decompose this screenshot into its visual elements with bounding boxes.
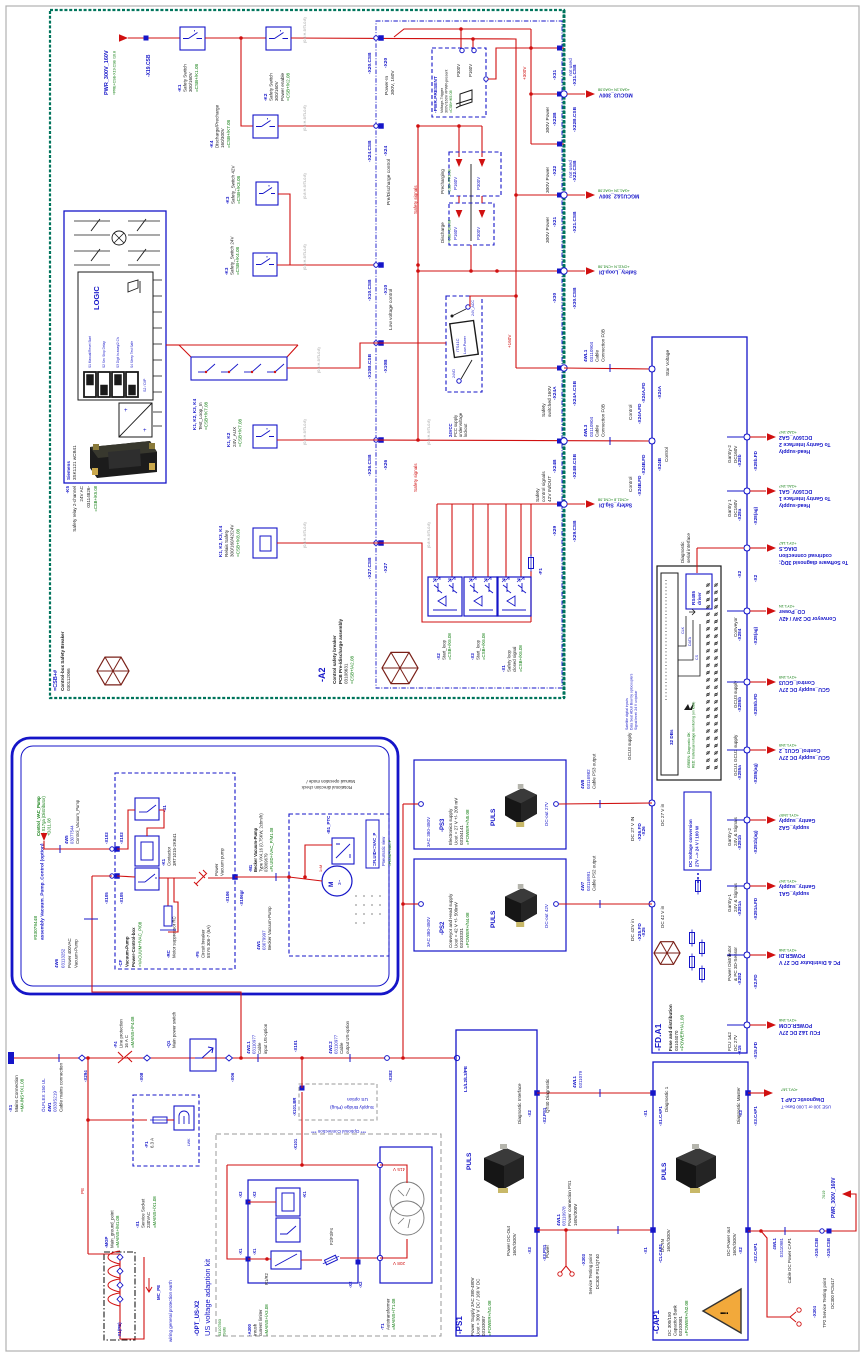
- svg-text:-X1: -X1: [501, 665, 506, 672]
- svg-text:300V Power: 300V Power: [545, 166, 551, 193]
- svg-text:Gantry-2: Gantry-2: [727, 828, 732, 846]
- svg-text:Line protection: Line protection: [119, 1019, 124, 1048]
- svg-text:-CLCAP1: -CLCAP1: [658, 1243, 663, 1263]
- svg-text:PULS: PULS: [490, 910, 497, 928]
- svg-text:-X2: -X2: [737, 570, 742, 578]
- svg-text:Safety Switch: Safety Switch: [183, 64, 188, 92]
- svg-text:=MAINS+/F4.08: =MAINS+/F4.08: [130, 1016, 135, 1048]
- svg-text:-X24B.FD: -X24B.FD: [637, 475, 642, 496]
- svg-text:To Gantry Interface 1: To Gantry Interface 1: [779, 495, 831, 501]
- svg-text:=PRE+CSB-X19.CSB /16.8: =PRE+CSB-X19.CSB /16.8: [113, 51, 117, 95]
- svg-text:PE: PE: [80, 1188, 85, 1194]
- svg-text:-X2: -X2: [436, 653, 441, 660]
- sense input P300V: [460, 48, 464, 52]
- svg-text:(0.8 H-9/TL0.8): (0.8 H-9/TL0.8): [303, 17, 307, 43]
- CAP1 pad X3: [745, 1090, 751, 1096]
- Q1 glyph: [195, 1047, 213, 1058]
- svg-text:+GA1.1N +GA2.08: +GA1.1N +GA2.08: [598, 189, 630, 193]
- svg-text:Control_Vacuum_Pump: Control_Vacuum_Pump: [75, 799, 80, 844]
- wire 3AC into PS3: [403, 803, 418, 805]
- svg-text:03114826-: 03114826-: [86, 486, 91, 508]
- svg-text:-X26: -X26: [641, 826, 646, 836]
- PS3 out terminal: [554, 802, 559, 807]
- svg-text:-X26: -X26: [383, 460, 389, 470]
- fuse 6: [700, 969, 705, 980]
- svg-text:-X28(ag): -X28(ag): [753, 506, 758, 525]
- junction TP2: [759, 1229, 763, 1233]
- svg-text:-FD.A1: -FD.A1: [653, 1023, 663, 1051]
- svg-text:-X105: -X105: [104, 892, 109, 904]
- connector -X27 on A2 edge: [374, 541, 378, 545]
- svg-text:=CSB+/K3.08: =CSB+/K3.08: [236, 175, 241, 204]
- wire X3 to relay: [248, 1201, 276, 1203]
- svg-text:S3 Digit In away/2 Ch: S3 Digit In away/2 Ch: [116, 337, 120, 368]
- svg-text:RS485: RS485: [691, 591, 696, 605]
- node X302: [385, 1056, 390, 1061]
- wire X24 branch: [418, 125, 459, 127]
- wire K1 to K2: [205, 37, 266, 39]
- svg-text:300/160V: 300/160V: [188, 71, 193, 92]
- motor M: [322, 866, 352, 896]
- node X08: [144, 1055, 151, 1061]
- svg-text:Circuit breaker: Circuit breaker: [201, 929, 206, 958]
- 3AC feeder vertical: [402, 804, 404, 1058]
- svg-text:-X2: -X2: [527, 1110, 532, 1117]
- wire fuse to socket: [167, 1119, 174, 1121]
- svg-text:Safety_Loop.DI: Safety_Loop.DI: [598, 269, 636, 275]
- svg-text:-X19.CSB: -X19.CSB: [826, 1238, 831, 1258]
- svg-text:=CSB+/K8.08: =CSB+/K8.08: [235, 528, 240, 557]
- connector -X30: [557, 269, 562, 274]
- svg-text:Connection F0B: Connection F0B: [600, 404, 605, 437]
- connector -X10B on A2 edge: [374, 341, 378, 345]
- svg-text:driver: driver: [697, 592, 702, 605]
- diag stub to RS485: [696, 548, 698, 573]
- arrow into P160V discharge: [456, 210, 463, 218]
- svg-text:Low voltage control: Low voltage control: [388, 289, 394, 330]
- svg-text:Head-supply: Head-supply: [779, 502, 810, 508]
- svg-text:K1, K2, K3, K4: K1, K2, K3, K4: [218, 525, 223, 557]
- PWR_PRESENT output: [484, 77, 488, 81]
- us kit left leg: [227, 1165, 247, 1259]
- svg-text:-F1: -F1: [538, 568, 543, 575]
- connector -X24 on A2 edge: [374, 124, 378, 128]
- svg-text:-X15.FD: -X15.FD: [753, 1041, 758, 1059]
- switch lever: [452, 309, 466, 316]
- svg-text:=MAINS+/M1.08: =MAINS+/M1.08: [115, 1215, 120, 1248]
- wire PS2 to FD: [559, 903, 652, 905]
- R1R2 limiter: [271, 1251, 301, 1269]
- svg-text:Precharging: Precharging: [440, 169, 445, 194]
- CAP1 capacitor bank box: [653, 1062, 748, 1340]
- arrow Safety_Sig.DI: [567, 503, 585, 505]
- svg-text:=FLUID+/VAC.P: =FLUID+/VAC.P: [388, 839, 392, 866]
- svg-text:Cable: Cable: [595, 425, 600, 437]
- connector -X31: [557, 46, 562, 51]
- test point X304: [790, 1312, 796, 1322]
- svg-text:-X294: -X294: [83, 1070, 88, 1082]
- note glyph: [684, 702, 694, 710]
- svg-text:03079997: 03079997: [262, 930, 267, 950]
- svg-text:GCU3 supply: GCU3 supply: [627, 732, 632, 760]
- svg-text:24V & Signals: 24V & Signals: [733, 882, 738, 912]
- svg-text:4W8: 4W8: [580, 779, 585, 789]
- svg-text:codriread connection: codriread connection: [779, 552, 832, 558]
- PS2 in terminal: [419, 902, 424, 907]
- svg-text:03110977: 03110977: [252, 1034, 257, 1054]
- T1 bottom terminal: [377, 1255, 382, 1260]
- svg-text:DC 27 V IN: DC 27 V IN: [630, 816, 636, 841]
- svg-text:16 A C: 16 A C: [124, 1035, 129, 1048]
- pad X1 inrush: [246, 1257, 251, 1262]
- svg-text:K1, K2: K1, K2: [226, 432, 231, 447]
- arrow into P300V discharge: [479, 210, 486, 218]
- opto coupler X3 start loop: [464, 577, 498, 616]
- satellite input pins: [707, 584, 709, 586]
- svg-text:CS: CS: [695, 654, 699, 660]
- svg-text:supply_GA1: supply_GA1: [779, 890, 809, 896]
- contactor main contact: [135, 868, 159, 890]
- svg-text:4WL1: 4WL1: [583, 349, 588, 362]
- svg-text:4W6: 4W6: [54, 958, 59, 968]
- svg-text:-X2: -X2: [738, 1247, 743, 1254]
- junction P300V: [459, 27, 463, 31]
- svg-text:4W2.1: 4W2.1: [246, 1041, 251, 1054]
- svg-text:Service Socket: Service Socket: [141, 1198, 146, 1228]
- MGP main ground point box: [104, 1252, 135, 1340]
- svg-text:03116991: 03116991: [586, 871, 591, 891]
- svg-text:-X3: -X3: [252, 1191, 257, 1198]
- svg-text:Gantry-1: Gantry-1: [727, 894, 732, 912]
- slant right: [287, 345, 298, 357]
- svg-text:PWR_300V_160V: PWR_300V_160V: [831, 1177, 837, 1218]
- arrow MGCU1&2 300V: [567, 194, 585, 196]
- svg-text:-X24B: -X24B: [657, 457, 662, 471]
- opto feed vertical: [451, 504, 453, 577]
- FD.A1 star voltage distribution box: [652, 337, 747, 1053]
- svg-text:-X25: -X25: [641, 927, 646, 937]
- junction us kit: [300, 1163, 304, 1167]
- svg-text:-X29: -X29: [552, 526, 558, 536]
- svg-text:Cable PS3 output: Cable PS3 output: [592, 753, 597, 789]
- svg-text:=MAINS+/A3.08: =MAINS+/A3.08: [264, 1304, 269, 1336]
- svg-text:-X285(ag): -X285(ag): [753, 763, 758, 784]
- wire left to X105: [92, 875, 112, 877]
- svg-text:-K3: -K3: [225, 196, 230, 204]
- svg-text:P160V: P160V: [453, 227, 458, 240]
- svg-text:-F4: -F4: [113, 1041, 118, 1048]
- svg-text:=CSB+/A2.08: =CSB+/A2.08: [349, 655, 354, 684]
- wire X106 to pump: [235, 876, 289, 878]
- opto feed vertical: [520, 504, 522, 577]
- svg-text:-X26.CSB: -X26.CSB: [367, 454, 373, 476]
- becker vacuum pump box: [289, 814, 389, 956]
- svg-text:F2/F3/F4: F2/F3/F4: [329, 1227, 334, 1245]
- wire to X24A: [516, 367, 564, 369]
- svg-text:(0.8 H-9/TL0.8): (0.8 H-9/TL0.8): [303, 244, 307, 270]
- svg-text:Diagnostic: Diagnostic: [680, 541, 685, 563]
- svg-text:5SY6 306-7 (6A): 5SY6 306-7 (6A): [206, 925, 211, 958]
- svg-text:-K5: -K5: [65, 486, 70, 494]
- junction 3AC: [401, 902, 405, 906]
- PS1 pad X2: [534, 1090, 540, 1096]
- svg-text:-X285b.FD: -X285b.FD: [753, 693, 758, 716]
- slant left: [179, 345, 191, 357]
- svg-text:To Gantry Interface 2: To Gantry Interface 2: [779, 441, 831, 447]
- wire mains to bridge: [301, 1058, 303, 1088]
- svg-text:300/160/42/24V: 300/160/42/24V: [230, 524, 235, 557]
- svg-text:RED: Individual voltage monito: RED: Individual voltage monitoring (on l…: [691, 702, 695, 768]
- FD out conveyor: [744, 608, 750, 614]
- Precharging box: [449, 152, 501, 196]
- wire contact to breaker: [159, 877, 196, 879]
- svg-text:input US-option: input US-option: [263, 1023, 268, 1054]
- svg-text:+GA1.1N?: +GA1.1N?: [779, 484, 797, 488]
- svg-text:-PS2: -PS2: [440, 921, 446, 935]
- svg-text:-X1: -X1: [135, 1221, 140, 1228]
- A2 assembly dash-dot boundary: [376, 21, 562, 688]
- svg-text:Main_ground_point: Main_ground_point: [110, 1210, 115, 1248]
- svg-text:-X2: -X2: [358, 1281, 363, 1288]
- service socket box: [133, 1095, 199, 1166]
- svg-text:Contactor: Contactor: [167, 846, 172, 866]
- upper aux rail: [394, 29, 531, 37]
- svg-text:Autotransformer: Autotransformer: [386, 1298, 391, 1330]
- svg-text:03103081: 03103081: [678, 1315, 683, 1336]
- svg-text:Pneumatic view: Pneumatic view: [381, 836, 386, 866]
- svg-text:-X3: -X3: [238, 1191, 243, 1198]
- svg-text:ITS41C: ITS41C: [455, 338, 460, 352]
- svg-text:=CSB+/K7.08: =CSB+/K7.08: [204, 401, 209, 430]
- wire to X30: [497, 270, 564, 272]
- svg-text:-F1: -F1: [144, 1141, 149, 1148]
- svg-text:-X2.CAP1: -X2.CAP1: [753, 1243, 758, 1263]
- cube symbol FD: [654, 942, 680, 965]
- svg-text:+GY1.1N?: +GY1.1N?: [779, 879, 797, 883]
- svg-text:(0.8 H-9/TL0.8): (0.8 H-9/TL0.8): [303, 522, 307, 548]
- T1 bottom wire: [380, 1239, 407, 1258]
- svg-text:-X21.CSB: -X21.CSB: [572, 211, 578, 233]
- svg-text:Safety relay 2-channel: Safety relay 2-channel: [72, 486, 77, 532]
- precharge feed 300V: [481, 126, 483, 157]
- svg-text:PCB Pre-/discharge assembly: PCB Pre-/discharge assembly: [338, 618, 343, 684]
- svg-text:Diagnostic Interface: Diagnostic Interface: [517, 1083, 522, 1124]
- svg-text:-X24B: -X24B: [552, 459, 558, 473]
- safety switch K4: [253, 115, 278, 138]
- node X06: [226, 1055, 233, 1061]
- node X294: [79, 1055, 86, 1061]
- svg-text:-X22B: -X22B: [552, 112, 558, 126]
- svg-text:Power Supply 3AC 380-480V: Power Supply 3AC 380-480V: [470, 1277, 475, 1336]
- wire X24A to star voltage: [564, 368, 651, 369]
- svg-text:-K1: -K1: [177, 84, 182, 92]
- svg-text:=FLUID+/VAC_P/M1.08: =FLUID+/VAC_P/M1.08: [269, 827, 274, 872]
- svg-text:-B1_PTC: -B1_PTC: [326, 815, 331, 834]
- tick diag: [599, 1089, 601, 1097]
- pad X106: [232, 874, 238, 880]
- svg-text:03110977: 03110977: [334, 1034, 339, 1054]
- 24VCC supply box: [446, 296, 482, 392]
- PS1 mains terminal: [454, 1055, 459, 1060]
- svg-text:PULS: PULS: [490, 808, 497, 826]
- dotted column: [665, 580, 667, 700]
- svg-text:-X1: -X1: [643, 1247, 648, 1254]
- opto feed vertical: [505, 504, 507, 577]
- svg-text:DC-out 27V: DC-out 27V: [544, 801, 549, 826]
- svg-text:4W5: 4W5: [64, 835, 69, 844]
- wire between pre/discharge 160V: [458, 196, 460, 203]
- svg-text:32 DBs: 32 DBs: [669, 729, 674, 745]
- svg-text:-X281a.FD: -X281a.FD: [753, 897, 758, 920]
- svg-text:=FLUID+=VAC_P: =FLUID+=VAC_P: [372, 832, 377, 866]
- svg-text:03103087: 03103087: [481, 1315, 486, 1336]
- junction PE: [86, 1056, 90, 1060]
- svg-text:FCU 1&2: FCU 1&2: [727, 1032, 732, 1051]
- sense input P160V: [472, 48, 476, 52]
- svg-text:PULS: PULS: [466, 1152, 473, 1170]
- svg-text:GREEN: Diagnostic OK: GREEN: Diagnostic OK: [687, 732, 691, 768]
- rc feed: [167, 878, 169, 906]
- FD pad X26: [649, 800, 655, 806]
- svg-text:-X21: -X21: [552, 217, 558, 227]
- svg-text:03110904: 03110904: [589, 416, 594, 437]
- svg-text:Main power switch: Main power switch: [172, 1011, 177, 1048]
- svg-text:Pre/Discharge control: Pre/Discharge control: [386, 159, 392, 205]
- K1 coil inner: [282, 1193, 294, 1211]
- svg-text:=CSB+#: =CSB+#: [53, 670, 59, 691]
- siemens relay photo: [90, 441, 157, 478]
- svg-text:DC-Power out: DC-Power out: [726, 1226, 731, 1256]
- svg-text:Start_loop: Start_loop: [476, 639, 481, 660]
- connector -X24A: [557, 366, 562, 371]
- transformer windings: [390, 1182, 424, 1216]
- RC suppressor: [164, 906, 172, 926]
- svg-text:-X303: -X303: [581, 1253, 586, 1265]
- svg-text:=POWER+/N4.08: =POWER+/N4.08: [465, 912, 470, 948]
- svg-text:03110981: 03110981: [779, 1237, 784, 1257]
- svg-text:QT40 Diagnostic: QT40 Diagnostic: [545, 1078, 550, 1113]
- svg-text:-F5: -F5: [195, 951, 200, 958]
- junction: [469, 269, 473, 273]
- svg-text:Safety signals: Safety signals: [413, 185, 418, 214]
- junction: [495, 269, 499, 273]
- svg-text:Gantry_supply: Gantry_supply: [779, 817, 815, 823]
- svg-text:K1, K2, K3, K4: K1, K2, K3, K4: [192, 398, 197, 430]
- US adaption kit box: [216, 1134, 441, 1336]
- svg-text:-K1: -K1: [161, 858, 166, 866]
- svg-text:300V, 160V: 300V, 160V: [390, 70, 396, 95]
- svg-text:-X2: -X2: [348, 1281, 353, 1288]
- svg-text:not used: not used: [568, 160, 573, 178]
- svg-text:Safety Switch: Safety Switch: [269, 73, 274, 101]
- svg-text:Satellite digital inputs: Satellite digital inputs: [625, 698, 629, 730]
- svg-text:-X24.CSB: -X24.CSB: [367, 140, 373, 162]
- svg-text:Uout = 300 V DC / 160 V DC: Uout = 300 V DC / 160 V DC: [476, 1278, 481, 1336]
- svg-text:DC 27V: DC 27V: [733, 1034, 738, 1051]
- svg-text:DC 42V in: DC 42V in: [630, 919, 636, 941]
- diag wire to X2: [697, 547, 744, 549]
- svg-text:-X24A: -X24A: [657, 385, 662, 399]
- svg-text:Head-supply: Head-supply: [779, 448, 810, 454]
- svg-text:Control-box Safety Breaker: Control-box Safety Breaker: [60, 631, 65, 691]
- K1 relay coil box: [276, 1188, 300, 1216]
- svg-text:POWER.COM: POWER.COM: [779, 1022, 812, 1028]
- svg-text:7019: 7019: [822, 1191, 826, 1199]
- svg-text:-X20: -X20: [383, 58, 389, 68]
- svg-text:-K3: -K3: [224, 267, 229, 275]
- svg-text:Supply Bridge (Plug): Supply Bridge (Plug): [330, 1104, 374, 1110]
- discharge to safety loop: [470, 245, 472, 271]
- wire down to mains: [92, 876, 241, 1058]
- PTC sensor box: [332, 838, 354, 864]
- svg-text:-X06: -X06: [230, 1072, 235, 1082]
- svg-text:+GA2.1N?: +GA2.1N?: [779, 430, 797, 434]
- svg-text:-X27: -X27: [383, 563, 389, 573]
- svg-text:MC_PE: MC_PE: [156, 1285, 161, 1300]
- svg-text:Control_GCU3: Control_GCU3: [779, 679, 815, 685]
- svg-text:-X2.FD: -X2.FD: [753, 974, 758, 989]
- junction: [514, 294, 518, 298]
- contact glyph: [138, 881, 145, 883]
- svg-text:=CSB+/K7.08: =CSB+/K7.08: [226, 119, 231, 148]
- svg-text:160/300V: 160/300V: [220, 127, 225, 148]
- svg-text:lockout: lockout: [463, 423, 468, 437]
- relais safety box: [253, 528, 277, 558]
- fuse 5: [690, 957, 695, 968]
- connector -X29: [557, 502, 562, 507]
- warning triangle: [703, 1289, 741, 1333]
- svg-text:Cable: Cable: [595, 350, 600, 362]
- svg-text:-X10B: -X10B: [383, 359, 389, 373]
- svg-text:1=M: 1=M: [319, 865, 323, 872]
- svg-text:-RC: -RC: [166, 949, 171, 958]
- safety sig collector: [437, 503, 564, 505]
- svg-text:Voltage-Trigger: Voltage-Trigger: [440, 87, 444, 113]
- safety switch K3 24V: [253, 253, 277, 276]
- junction US: [300, 1056, 304, 1060]
- CAP1 power out wire: [748, 1194, 856, 1231]
- autotransformer T1 box: [380, 1147, 432, 1283]
- svg-text:-X3: -X3: [738, 1110, 743, 1117]
- vertical +300V feeder: [530, 29, 532, 144]
- wire control to X103: [44, 841, 112, 849]
- wire K4 to X24: [278, 125, 377, 127]
- tick: [599, 900, 601, 908]
- T1 top terminal: [377, 1162, 382, 1167]
- contactor K1 coil box: [135, 836, 159, 866]
- wire toward X30: [418, 270, 497, 272]
- svg-text:+GY1.1N: +GY1.1N: [779, 604, 795, 608]
- dcdc converter: [119, 403, 152, 437]
- wire to X22: [531, 143, 564, 145]
- safety switch K3 42V: [256, 182, 278, 205]
- cable tick 4W6: [84, 918, 98, 920]
- svg-text:*** Optional Connection ***: *** Optional Connection ***: [311, 1129, 366, 1134]
- svg-text:Becker Vacuum-Pump: Becker Vacuum-Pump: [267, 906, 272, 950]
- svg-text:P160V: P160V: [468, 64, 473, 77]
- svg-text:+GY1.1N6: +GY1.1N6: [779, 1018, 797, 1022]
- svg-text:Conveyor: Conveyor: [733, 617, 738, 637]
- Discharge box: [449, 203, 494, 245]
- svg-text:230VAC: 230VAC: [146, 1212, 151, 1228]
- svg-text:Inrush: Inrush: [253, 1323, 258, 1336]
- svg-text:-Q1: -Q1: [166, 1040, 171, 1048]
- svg-text:Manual operation mode /: Manual operation mode /: [306, 779, 355, 784]
- svg-text:To Software diagnosid 3DQ;: To Software diagnosid 3DQ;: [779, 559, 848, 565]
- svg-text:-X103: -X103: [104, 832, 109, 844]
- svg-text:6.3 A: 6.3 A: [150, 1138, 155, 1148]
- svg-text:DC160V_GA1: DC160V_GA1: [779, 488, 812, 494]
